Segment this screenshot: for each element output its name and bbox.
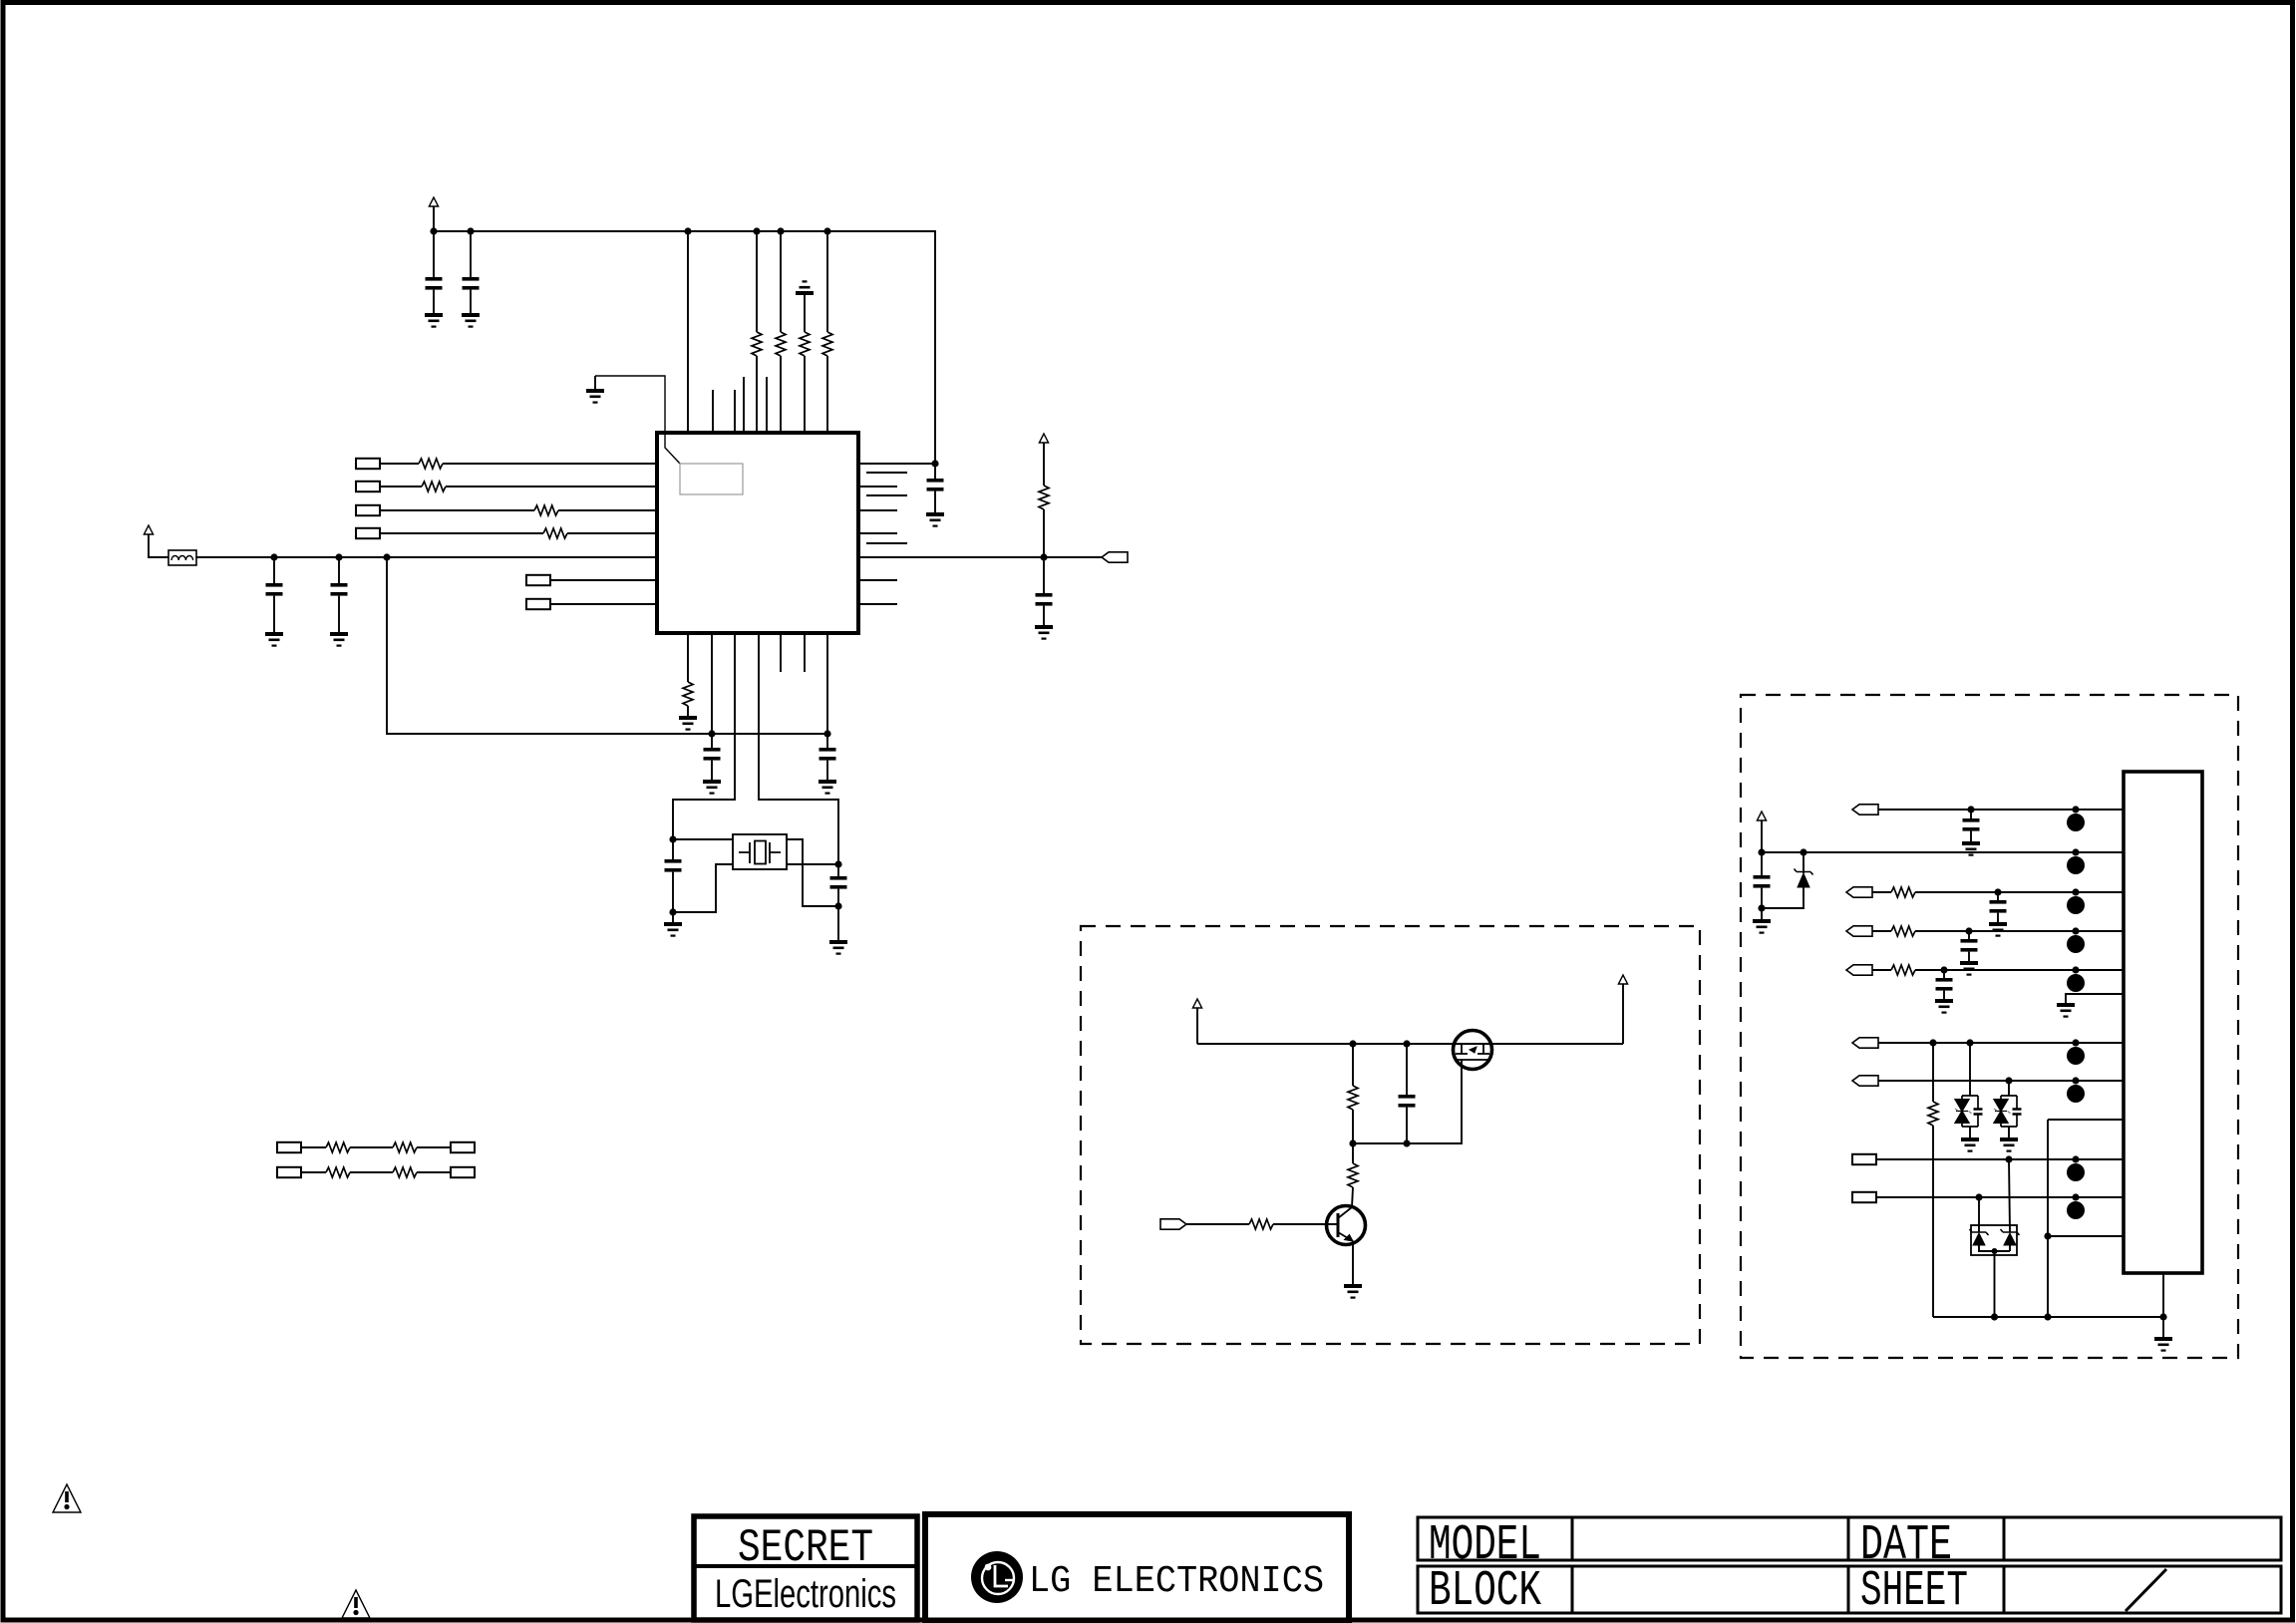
capacitor C13 <box>1761 852 1763 875</box>
SEC_TOPLEFT2 <box>144 433 1128 647</box>
ground <box>2057 1003 2075 1018</box>
node J20 <box>1349 1139 1356 1146</box>
port P16 <box>1846 965 1872 975</box>
port P4 <box>356 528 380 538</box>
capacitor C16 <box>1943 970 1945 978</box>
wire bottom net <box>1933 1316 2163 1318</box>
capacitor C15 <box>1968 931 1970 939</box>
pin stub <box>712 390 714 432</box>
pin row B right <box>858 486 897 487</box>
ground <box>330 632 348 647</box>
port P10 <box>277 1167 301 1177</box>
port P19 <box>1852 1154 1876 1164</box>
pin stub bottom <box>804 633 806 672</box>
wire row7 <box>1878 1080 2124 1082</box>
pin dot <box>2072 927 2079 934</box>
node J16 <box>834 860 841 867</box>
inner box U1 flag <box>680 464 743 494</box>
node J23 <box>1758 848 1765 855</box>
SEC_MIDBOX2 <box>1741 695 2238 1358</box>
pin circle <box>2067 1085 2085 1103</box>
dashed block border <box>1081 926 1700 1344</box>
ground <box>1962 841 1980 856</box>
node J29 <box>1929 1039 1936 1046</box>
pin circle <box>2067 896 2085 914</box>
pin circle <box>2067 1047 2085 1065</box>
wire <box>759 633 838 864</box>
node J1 <box>430 227 437 234</box>
sheet slash <box>2126 1569 2166 1611</box>
ground <box>1761 908 1763 919</box>
node J25 <box>1758 904 1765 911</box>
wire <box>673 864 733 912</box>
port P18 <box>1852 1076 1878 1086</box>
svg-text:SECRET: SECRET <box>738 1522 873 1574</box>
wire <box>787 839 838 906</box>
node J32 <box>2005 1155 2012 1162</box>
wire base <box>1186 1223 1249 1225</box>
transistor Q1 MOSFET <box>1454 1031 1492 1070</box>
power flag VCC6 <box>1757 811 1766 820</box>
LG logo symbol <box>971 1551 1023 1603</box>
dashed block border <box>1741 695 2238 1358</box>
port P3 <box>356 505 380 515</box>
wire row11 <box>2048 1235 2124 1237</box>
node J27 <box>1965 927 1972 934</box>
pin row E right <box>858 579 897 581</box>
capacitor C14 <box>1997 892 1999 900</box>
resistor R13 <box>326 1167 350 1177</box>
node J7 <box>270 553 277 560</box>
wire row3 <box>1872 891 1891 893</box>
ground <box>2162 1317 2164 1337</box>
resistor R17 <box>1249 1219 1273 1229</box>
SEC_LEFTROWS2 <box>1081 926 1700 1344</box>
LG logo box <box>925 1514 1349 1621</box>
node J31 <box>2005 1077 2012 1084</box>
wire row4 <box>1872 930 1891 932</box>
pin circle <box>2067 974 2085 992</box>
capacitor C2 <box>470 231 472 277</box>
pin stub <box>743 377 745 432</box>
title table row2 <box>1418 1566 2281 1613</box>
wire row2 <box>1762 851 2124 853</box>
node J26 <box>1994 888 2001 895</box>
pin row B left <box>446 486 657 487</box>
wire vertical <box>2047 1120 2049 1317</box>
wire <box>1994 1251 1996 1317</box>
capacitor C9 <box>672 839 674 859</box>
pin dot <box>2072 966 2079 973</box>
resistor R6 <box>422 482 446 491</box>
wire <box>711 633 713 734</box>
pin circle <box>2067 813 2085 831</box>
ground <box>265 632 283 647</box>
wire row8to connector <box>2048 1119 2124 1121</box>
node J22 <box>1967 806 1974 812</box>
wire <box>1273 1223 1338 1225</box>
capacitor C8 <box>826 734 828 748</box>
wire top rail <box>434 231 935 464</box>
node J18 <box>1349 1040 1356 1047</box>
power flag VCC2 <box>144 525 153 534</box>
connector CN1 <box>2124 772 2202 1273</box>
wire <box>1761 820 1763 852</box>
port P20 <box>1852 1192 1876 1202</box>
capacitor C10 <box>837 864 839 876</box>
resistor R14 <box>393 1167 417 1177</box>
pin circle <box>2067 856 2085 874</box>
svg-text:LG ELECTRONICS: LG ELECTRONICS <box>1029 1560 1324 1603</box>
wire rail <box>1197 1043 1623 1045</box>
node J17 <box>834 902 841 909</box>
resistor R4 <box>826 231 828 332</box>
capacitor C4 <box>338 557 340 583</box>
ground <box>1961 1137 1979 1152</box>
transistor Q2 BJT <box>1327 1206 1366 1245</box>
pin circle <box>2067 935 2085 953</box>
SEC_BELOWIC2 <box>53 1142 475 1618</box>
power flag VCC5 <box>1618 975 1627 984</box>
IC U1 <box>657 433 858 633</box>
resistor R18 <box>1891 887 1915 897</box>
ground <box>926 512 944 527</box>
node J4 <box>753 227 760 234</box>
node J9 <box>383 553 390 560</box>
node J28 <box>1940 966 1947 973</box>
wire <box>787 863 838 865</box>
pin dot <box>2072 848 2079 855</box>
wire <box>433 206 435 231</box>
resistor R11 <box>326 1142 350 1152</box>
node J21 <box>1403 1139 1410 1146</box>
wire gnd row <box>2066 994 2124 1003</box>
wire <box>673 633 735 839</box>
resistor R7 <box>534 505 558 515</box>
resistor R5 <box>419 459 443 469</box>
wire <box>350 1146 393 1148</box>
node J30 <box>1966 1039 1973 1046</box>
pin row C left <box>558 509 657 511</box>
capacitor C6 <box>1043 557 1045 593</box>
power flag VCC4 <box>1192 999 1201 1008</box>
ground <box>425 313 443 328</box>
node J2 <box>467 227 474 234</box>
ground <box>1035 625 1053 640</box>
wire <box>1915 891 2124 893</box>
capacitor C11 <box>1406 1044 1408 1095</box>
node J12 <box>708 730 715 737</box>
resistor R2 <box>780 231 782 332</box>
pin row D right <box>858 532 897 534</box>
ground <box>1344 1284 1362 1299</box>
resistor R3 <box>804 295 806 332</box>
wire <box>350 1171 393 1173</box>
crystal X1 <box>733 834 787 869</box>
pin stub bottom <box>780 633 782 672</box>
pin row A right <box>858 463 935 465</box>
pin row F left <box>550 603 657 605</box>
wire row10 <box>1876 1196 2124 1198</box>
pin stub right <box>866 494 907 496</box>
diode D4 dual package <box>1971 1225 2017 1255</box>
power flag VCC1 <box>429 197 438 206</box>
port P9 <box>451 1142 475 1152</box>
port P8 <box>277 1142 301 1152</box>
port P7 <box>1102 552 1128 562</box>
port P1 <box>356 459 380 469</box>
node J10 <box>931 460 938 467</box>
wire <box>301 1171 326 1173</box>
wire row5 <box>1872 969 1891 971</box>
wire <box>1622 984 1624 1044</box>
node J33 <box>1975 1193 1982 1200</box>
power flag VCC3 <box>1039 434 1048 443</box>
port P14 <box>1846 887 1872 897</box>
warning triangle W2 <box>342 1590 370 1618</box>
wire connector bottom pin <box>2162 1273 2164 1317</box>
wire bus right <box>858 556 1102 558</box>
ground <box>679 716 697 731</box>
pin dot <box>2072 806 2079 812</box>
resistor R12 <box>393 1142 417 1152</box>
node J5 <box>777 227 784 234</box>
wire <box>1196 1008 1198 1044</box>
wire <box>1915 930 2124 932</box>
resistor R19 <box>1891 926 1915 936</box>
wire main bus <box>196 556 657 558</box>
ground <box>1989 922 2007 937</box>
pin row A left <box>443 463 657 465</box>
node J8 <box>335 553 342 560</box>
node J24 <box>1800 848 1806 855</box>
wire <box>826 633 828 734</box>
ground flipped <box>796 280 814 295</box>
node J35 <box>1992 1248 1998 1254</box>
title table row1 <box>1418 1517 2281 1560</box>
port P15 <box>1846 926 1872 936</box>
node J34 <box>2044 1232 2051 1239</box>
pin dot <box>2072 1193 2079 1200</box>
diode D3 TVS <box>2008 1081 2010 1096</box>
SEC_IC2 <box>387 557 847 955</box>
ground <box>837 906 839 940</box>
node J14 <box>669 835 676 842</box>
ground <box>462 313 480 328</box>
resistor R21 <box>1932 1043 1934 1102</box>
ground <box>703 780 721 795</box>
port P6 <box>526 599 550 609</box>
pin circle <box>2067 1201 2085 1219</box>
ground <box>1935 999 1953 1014</box>
capacitor C1 <box>433 231 435 277</box>
wire gate node <box>1353 1060 1462 1143</box>
port P12 <box>1160 1219 1186 1229</box>
pin dot <box>2072 888 2079 895</box>
table dividers <box>1572 1517 2004 1560</box>
wire <box>301 1146 326 1148</box>
SEC_RIGHTBOX2 <box>694 1514 2281 1621</box>
secret box <box>694 1516 917 1620</box>
port P2 <box>356 482 380 491</box>
wire row9 <box>1876 1158 2124 1160</box>
capacitor C12 <box>1970 810 1972 818</box>
svg-text:SHEET: SHEET <box>1860 1563 1968 1620</box>
ground G3 <box>594 376 596 389</box>
ground <box>672 912 674 922</box>
node J13 <box>823 730 830 737</box>
node J36 <box>1991 1313 1998 1320</box>
pin dot <box>2072 1039 2079 1046</box>
capacitor C7 <box>711 734 713 748</box>
node J11 <box>1040 553 1047 560</box>
pin row C right <box>858 509 897 511</box>
svg-text:LGElectronics: LGElectronics <box>715 1572 896 1616</box>
warning triangle W1 <box>53 1484 81 1512</box>
ground <box>1960 961 1978 976</box>
pin dot <box>2072 1077 2079 1084</box>
inductor L1 <box>168 550 196 565</box>
pin row E left <box>550 579 657 581</box>
wire row1 <box>1878 809 2124 811</box>
resistor R20 <box>1891 965 1915 975</box>
pin stub <box>734 390 736 432</box>
port P5 <box>526 575 550 585</box>
node J15 <box>669 908 676 915</box>
resistor R15 <box>1352 1044 1354 1086</box>
pin stub right <box>866 472 907 474</box>
port P13 <box>1852 805 1878 814</box>
node J37 <box>2044 1313 2051 1320</box>
node J3 <box>684 227 691 234</box>
pin row D left <box>567 532 657 534</box>
pin stub right <box>866 542 907 544</box>
node J38 <box>2159 1313 2166 1320</box>
ground <box>819 780 836 795</box>
node J19 <box>1403 1040 1410 1047</box>
wire node rail <box>387 557 827 734</box>
wire <box>673 838 733 840</box>
pin circle <box>2067 1163 2085 1181</box>
wire row6 <box>1878 1042 2124 1044</box>
wire <box>595 376 680 464</box>
port P11 <box>451 1167 475 1177</box>
resistor R1 <box>756 231 758 332</box>
svg-text:BLOCK: BLOCK <box>1429 1563 1541 1620</box>
ground <box>2000 1137 2018 1152</box>
wire <box>417 1146 451 1148</box>
pin dot <box>2072 1155 2079 1162</box>
capacitor C3 <box>273 557 275 583</box>
pin stub <box>766 377 768 432</box>
capacitor C5 <box>934 464 936 479</box>
wire <box>149 534 168 557</box>
wire emitter <box>1352 1241 1354 1284</box>
wire <box>417 1171 451 1173</box>
port P17 <box>1852 1038 1878 1048</box>
resistor R9 <box>1043 443 1045 486</box>
resistor R16 <box>1352 1143 1354 1163</box>
diode D1 zener <box>1803 852 1804 873</box>
node J6 <box>823 227 830 234</box>
wire <box>1915 969 2124 971</box>
wire <box>687 231 689 432</box>
pin row F right <box>858 603 897 605</box>
resistor R8 <box>543 528 567 538</box>
diode D2 TVS <box>1969 1043 1971 1096</box>
resistor R10 <box>687 633 689 682</box>
